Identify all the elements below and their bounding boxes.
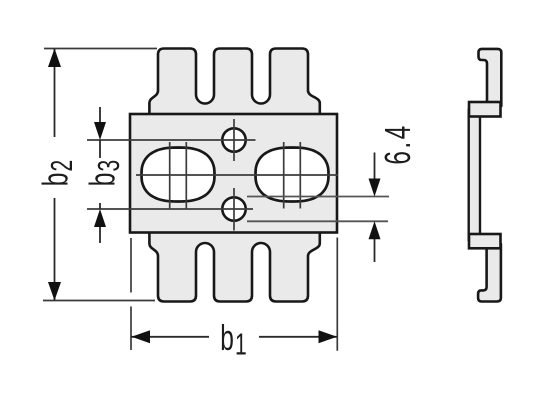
b3 arrow stem below xyxy=(99,226,101,243)
b1 left extension line lower segment xyxy=(130,307,132,351)
top prongs and shoulder xyxy=(149,49,319,116)
small hole top horizontal centerline / b3 ext xyxy=(87,139,256,141)
6.4 text xyxy=(377,123,418,164)
b1 text xyxy=(220,317,247,361)
big hole left vertical lines xyxy=(169,142,171,209)
b2 top extension line xyxy=(44,48,157,50)
small hole bottom vertical centerline xyxy=(233,188,235,231)
b2 text xyxy=(40,137,73,198)
b3 arrow above (down) xyxy=(94,122,106,140)
b1 dimension line left segment xyxy=(131,336,209,338)
side view stem xyxy=(469,110,480,240)
plate body xyxy=(130,114,337,233)
6.4 arrow below (up) xyxy=(369,221,381,239)
b3 arrow stem above xyxy=(99,107,101,124)
small hole bottom horizontal centerline / b3 ext xyxy=(87,208,253,210)
side view lower hook xyxy=(478,244,501,302)
b1 arrow left xyxy=(132,330,151,343)
6.4 tangent line top xyxy=(247,196,389,198)
6.4 arrow stem below xyxy=(374,239,376,262)
b2 arrow bottom xyxy=(48,282,61,301)
big hole right vertical lines xyxy=(283,142,285,209)
6.4 arrow stem above xyxy=(374,153,376,181)
b1 dimension line right segment xyxy=(259,336,337,338)
svg-text:6.4: 6.4 xyxy=(377,123,418,164)
b1 left extension line upper segment xyxy=(130,238,132,293)
b2 dimension line xyxy=(54,49,56,301)
small hole bottom xyxy=(222,197,245,220)
main horizontal centerline xyxy=(136,174,338,176)
b3 text xyxy=(86,158,120,203)
side view lower flange xyxy=(469,234,501,248)
b2 bottom extension line xyxy=(43,300,155,302)
small hole top xyxy=(222,128,245,151)
6.4 tangent line bottom xyxy=(247,220,388,222)
b2 arrow top xyxy=(48,49,61,68)
b3 arrow below (up) xyxy=(94,209,106,227)
b1 right extension line xyxy=(336,238,338,351)
bottom prongs and shoulder xyxy=(149,231,319,302)
big hole left xyxy=(142,148,215,202)
b3 dimension line xyxy=(99,140,101,209)
side view upper hook xyxy=(479,49,502,106)
6.4 arrow above (down) xyxy=(369,179,381,197)
big hole right xyxy=(256,148,329,202)
b1 arrow right xyxy=(319,330,338,343)
small hole top vertical centerline xyxy=(233,119,235,161)
side view upper flange xyxy=(469,102,501,117)
